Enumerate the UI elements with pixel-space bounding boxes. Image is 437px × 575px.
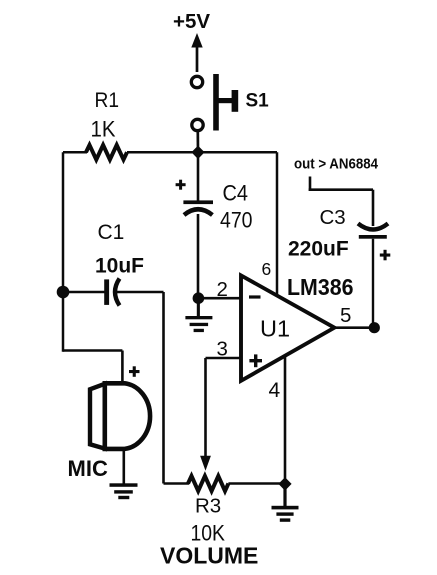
label out AN6884 — [294, 156, 379, 173]
label C4 — [223, 181, 249, 206]
ground (R3) — [272, 488, 299, 522]
svg-text:220uF: 220uF — [288, 238, 349, 261]
junction node (supply rail) — [191, 146, 204, 159]
label VOLUME — [160, 543, 258, 569]
label 10K — [191, 521, 226, 546]
svg-text:VOLUME: VOLUME — [160, 543, 258, 569]
resistor R1 — [86, 145, 127, 160]
label pin 3 — [217, 338, 228, 361]
label C1 — [98, 221, 125, 244]
label 470 — [220, 208, 253, 233]
+5V arrow — [191, 33, 202, 72]
label 10uF — [95, 255, 144, 278]
wire pin6 drop — [276, 152, 279, 296]
label pin 4 — [269, 379, 281, 402]
wire top rail right segment — [127, 151, 277, 154]
potentiometer wiper arrow — [200, 456, 211, 471]
svg-text:1K: 1K — [91, 117, 116, 142]
switch S1 top terminal — [191, 76, 202, 87]
wire pin3 to wiper — [204, 358, 207, 457]
svg-text:C3: C3 — [320, 206, 346, 229]
label MIC — [68, 456, 108, 481]
capacitor C4 — [183, 200, 213, 215]
label S1 — [246, 91, 270, 112]
wire C3 bottom lead — [372, 239, 374, 328]
wire C4 top lead — [197, 152, 200, 201]
label pin 6 — [262, 259, 272, 279]
wire mic top lead — [121, 351, 124, 386]
junction node pin2 — [193, 292, 205, 304]
label 1K — [91, 117, 116, 142]
label pin 2 — [217, 278, 228, 301]
wire C1 left lead — [63, 291, 105, 294]
capacitor C4 plus sign — [176, 180, 186, 190]
svg-text:5: 5 — [340, 304, 351, 327]
svg-text:LM386: LM386 — [287, 274, 354, 300]
wire C3 top lead — [372, 190, 375, 226]
wire output pin5 — [334, 326, 375, 329]
op-amp plus input mark — [249, 354, 262, 367]
wire left rail — [62, 152, 65, 351]
wire mic bottom lead — [123, 448, 126, 484]
microphone MIC — [90, 383, 150, 449]
wire pin3 — [206, 357, 243, 360]
junction node output — [369, 322, 380, 333]
potentiometer R3 — [188, 476, 228, 491]
capacitor C3 plus sign — [380, 250, 391, 260]
svg-text:U1: U1 — [260, 316, 290, 342]
label R3 — [195, 495, 221, 518]
svg-text:10uF: 10uF — [95, 255, 144, 278]
label C3 — [320, 206, 346, 229]
junction node R3/pin4 — [278, 477, 291, 490]
+5V label — [173, 10, 210, 33]
label LM386 — [287, 274, 354, 300]
svg-text:2: 2 — [217, 278, 228, 301]
label R1 — [95, 88, 120, 112]
svg-text:4: 4 — [269, 379, 281, 402]
wire mic branch horizontal — [63, 349, 122, 352]
wire R3 left lead — [164, 482, 190, 485]
pushbutton switch S1 — [213, 74, 238, 131]
op-amp minus input mark — [249, 295, 261, 298]
svg-text:R3: R3 — [195, 495, 221, 518]
switch S1 bottom terminal — [192, 119, 203, 130]
wire C1 to R3 — [162, 292, 165, 484]
wire pin4 — [284, 356, 287, 484]
svg-text:C4: C4 — [223, 181, 249, 206]
op-amp U1 LM386 — [241, 275, 334, 380]
wire pin2 — [198, 297, 242, 300]
wire C4 bottom lead — [197, 214, 200, 298]
svg-text:out > AN6884: out > AN6884 — [294, 156, 379, 173]
junction node C1 input — [57, 286, 70, 299]
svg-text:6: 6 — [262, 259, 272, 279]
label 220uF — [288, 238, 349, 261]
ground (pin2) — [185, 302, 212, 332]
label U1 — [260, 316, 290, 342]
ground (mic) — [110, 483, 138, 499]
svg-text:S1: S1 — [246, 91, 270, 112]
svg-text:MIC: MIC — [68, 456, 108, 481]
capacitor C3 — [358, 224, 388, 239]
svg-text:C1: C1 — [98, 221, 125, 244]
svg-text:R1: R1 — [95, 88, 120, 112]
wire S1 bottom to junction — [196, 131, 199, 152]
svg-text:470: 470 — [220, 208, 253, 233]
wire R3 right lead — [228, 482, 285, 485]
wire out stub — [309, 177, 373, 192]
capacitor C1 — [104, 279, 119, 306]
mic plus sign — [129, 366, 140, 377]
svg-text:+5V: +5V — [173, 10, 210, 33]
wire top rail left segment — [63, 151, 87, 154]
label pin 5 — [340, 304, 351, 327]
wire C1 right lead — [117, 291, 164, 294]
